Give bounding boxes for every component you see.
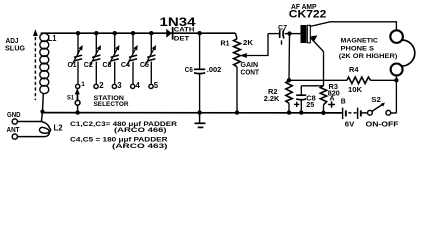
label ADJ SLUG bbox=[5, 38, 26, 53]
svg-text:R1: R1 bbox=[221, 40, 230, 47]
svg-text:L2: L2 bbox=[54, 123, 64, 132]
svg-text:S1: S1 bbox=[67, 95, 74, 102]
svg-text:S2: S2 bbox=[371, 97, 381, 104]
wire bias rail to R4 bbox=[289, 79, 341, 81]
terminal 3 bbox=[112, 84, 116, 88]
wire emitter vertical bbox=[323, 52, 325, 86]
svg-text:CK722: CK722 bbox=[289, 8, 327, 20]
node dot C3 tap bbox=[113, 31, 117, 35]
GND terminal bbox=[7, 112, 41, 124]
diode 1N34 detector bbox=[166, 27, 173, 40]
wire L1 bottom lead bbox=[42, 94, 45, 112]
wire phones to S2 vertical bbox=[395, 76, 397, 113]
node dot R2 bottom bbox=[287, 110, 291, 114]
node dot R2 top bbox=[287, 78, 291, 82]
svg-text:2: 2 bbox=[99, 81, 104, 90]
node dot S1 on bus bbox=[75, 110, 79, 114]
node dot L1/L2/GND junction bbox=[40, 110, 44, 114]
ANT terminal bbox=[7, 127, 46, 139]
inductor L1 bbox=[40, 33, 49, 93]
label C1,C2,C3 padder note bbox=[70, 121, 177, 150]
adjustable slug dashed line with arrow bbox=[33, 29, 38, 100]
svg-text:5: 5 bbox=[154, 81, 159, 90]
label + (battery A) bbox=[328, 101, 335, 107]
label GAIN CONT bbox=[241, 62, 260, 77]
svg-text:.002: .002 bbox=[207, 67, 222, 74]
terminal 1 bbox=[76, 84, 80, 88]
svg-text:25: 25 bbox=[306, 102, 314, 109]
svg-text:ADJ: ADJ bbox=[6, 38, 19, 45]
label MAGNETIC PHONES (2K OR HIGHER) bbox=[339, 38, 398, 60]
terminal 5 bbox=[149, 84, 153, 88]
node dot C5 tap bbox=[149, 31, 153, 35]
svg-text:1: 1 bbox=[81, 81, 85, 88]
svg-text:C2: C2 bbox=[84, 62, 93, 69]
svg-text:ANT: ANT bbox=[7, 127, 21, 134]
top bus wire bbox=[41, 32, 236, 34]
transistor Q1 CK722 bbox=[301, 22, 331, 52]
variable capacitor C1 bbox=[71, 33, 82, 84]
svg-text:PHONE S: PHONE S bbox=[341, 46, 375, 53]
variable capacitor C2 bbox=[90, 33, 101, 84]
svg-text:C5: C5 bbox=[140, 62, 149, 69]
svg-text:SELECTOR: SELECTOR bbox=[94, 101, 129, 108]
node dot R3 bottom bbox=[321, 111, 325, 115]
svg-text:CATH: CATH bbox=[174, 27, 195, 34]
capacitor C6 bbox=[194, 33, 205, 112]
svg-text:10K: 10K bbox=[348, 87, 362, 94]
svg-text:B: B bbox=[341, 99, 346, 106]
node dot R4/phones bbox=[394, 78, 398, 82]
svg-text:4: 4 bbox=[136, 81, 141, 90]
svg-text:SLUG: SLUG bbox=[5, 46, 26, 53]
capacitor C7 bbox=[268, 29, 301, 44]
battery B1 6V bbox=[343, 108, 368, 119]
svg-text:2K: 2K bbox=[243, 40, 253, 47]
variable capacitor C4 bbox=[126, 33, 137, 84]
potentiometer R1 2K bbox=[234, 33, 241, 112]
svg-text:(ARCO 466): (ARCO 466) bbox=[114, 127, 167, 134]
svg-text:DET: DET bbox=[174, 35, 190, 42]
svg-text:L1: L1 bbox=[48, 34, 57, 43]
svg-text:GAIN: GAIN bbox=[241, 62, 259, 69]
svg-text:C7: C7 bbox=[278, 24, 287, 31]
svg-text:C1: C1 bbox=[68, 62, 77, 69]
node dot C8 bottom bbox=[299, 110, 303, 114]
variable capacitor C3 bbox=[108, 33, 119, 84]
resistor R2 2.2K bbox=[286, 80, 292, 112]
svg-text:R4: R4 bbox=[349, 67, 359, 74]
node dot C4 tap bbox=[131, 31, 135, 35]
svg-text:C4: C4 bbox=[121, 62, 130, 69]
variable capacitor C5 bbox=[145, 33, 156, 84]
svg-text:MAGNETIC: MAGNETIC bbox=[341, 38, 379, 45]
node dot C1 tap bbox=[76, 31, 80, 35]
switch S1 selector arm bbox=[75, 88, 80, 113]
svg-text:6V: 6V bbox=[345, 122, 355, 129]
terminal 4 bbox=[131, 84, 135, 88]
node dot C2 tap bbox=[94, 31, 98, 35]
svg-text:3: 3 bbox=[117, 81, 122, 90]
svg-text:2.2K: 2.2K bbox=[264, 96, 280, 103]
ground bbox=[195, 113, 206, 128]
resistor R3 820 bbox=[320, 86, 326, 113]
wire collector to phones bbox=[330, 22, 396, 30]
node dot base junction bbox=[287, 31, 291, 35]
switch S2 bbox=[368, 103, 397, 116]
svg-text:(2K OR HIGHER): (2K OR HIGHER) bbox=[339, 53, 398, 60]
node dot R1 on bus bbox=[235, 110, 239, 114]
svg-text:C3: C3 bbox=[102, 62, 111, 69]
resistor R4 10K bbox=[341, 77, 397, 84]
wire C8 rail bbox=[301, 85, 323, 87]
wire junction to L2 bbox=[41, 112, 42, 122]
svg-text:ON-OFF: ON-OFF bbox=[366, 122, 399, 129]
svg-text:(ARCO 463): (ARCO 463) bbox=[112, 143, 168, 150]
node dot C6/ground on bus bbox=[197, 110, 201, 114]
terminal 2 bbox=[94, 84, 98, 88]
svg-text:GND: GND bbox=[7, 112, 21, 119]
label STATION SELECTOR bbox=[94, 95, 129, 108]
svg-text:CONT: CONT bbox=[241, 69, 260, 76]
wire base bias vertical bbox=[288, 34, 291, 81]
inductor L2 bbox=[39, 122, 50, 137]
capacitor C8 electrolytic bbox=[294, 86, 306, 113]
magnetic phones bbox=[390, 30, 414, 75]
bottom bus wire bbox=[43, 112, 342, 114]
R1 wiper arm bbox=[240, 34, 268, 58]
node dot detector output bbox=[197, 31, 201, 35]
svg-text:C6: C6 bbox=[185, 67, 193, 74]
